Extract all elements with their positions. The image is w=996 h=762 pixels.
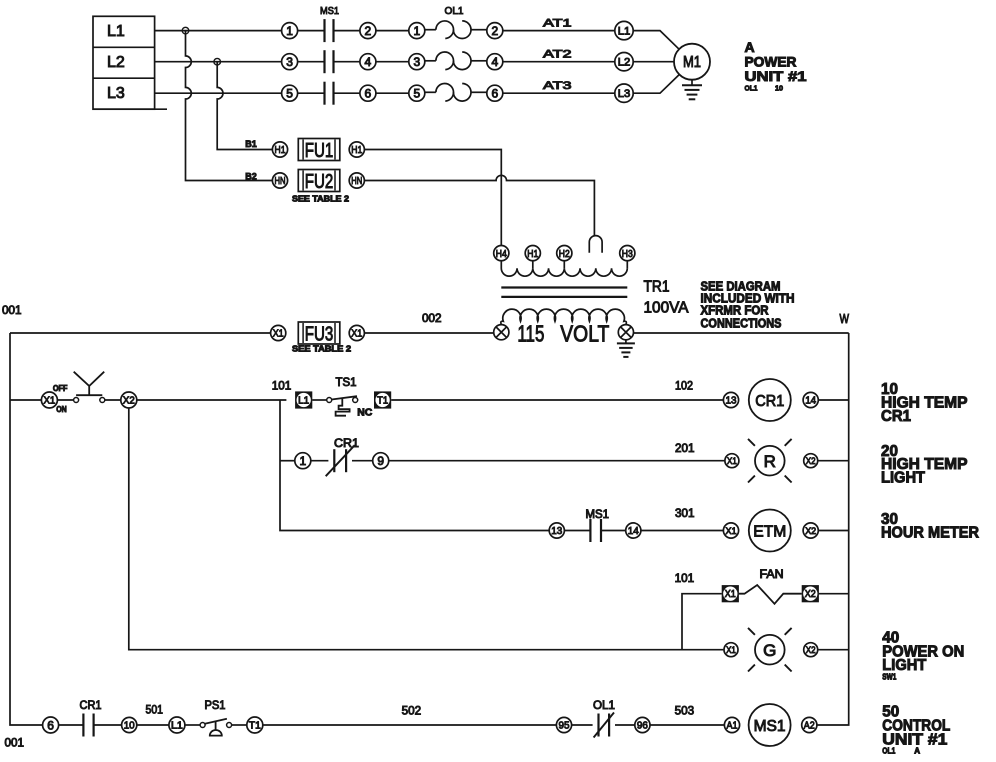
panel terminal X1 selector — [41, 392, 57, 408]
svg-text:6: 6 — [491, 86, 498, 100]
svg-text:X1: X1 — [351, 328, 362, 340]
svg-text:UNIT #1: UNIT #1 — [745, 68, 807, 84]
terminal HN left — [272, 173, 287, 188]
svg-text:FAN: FAN — [760, 569, 784, 581]
wire R lamp to rail — [818, 460, 849, 462]
pin 1 — [295, 453, 311, 469]
wire 001 to FU3 — [10, 332, 271, 334]
MS1 aux NO contact — [564, 519, 625, 542]
svg-text:H4: H4 — [496, 248, 507, 260]
svg-text:X1: X1 — [273, 328, 284, 340]
pin 9 — [373, 453, 389, 469]
label 20 HIGH TEMP LIGHT — [881, 443, 968, 487]
wire 002 to transformer — [364, 332, 493, 334]
svg-text:X2: X2 — [805, 526, 816, 537]
wire T1 to CR1 coil — [391, 399, 723, 401]
svg-text:1: 1 — [413, 24, 420, 38]
svg-text:B1: B1 — [245, 139, 257, 150]
svg-text:HN: HN — [351, 175, 362, 187]
svg-text:MS1: MS1 — [320, 5, 339, 17]
svg-text:TR1: TR1 — [644, 279, 670, 296]
wire CR1 to rail — [818, 399, 848, 401]
svg-text:G: G — [763, 641, 776, 660]
label 30 HOUR METER — [881, 511, 979, 541]
svg-text:3: 3 — [413, 55, 420, 69]
transformer core — [501, 288, 627, 297]
svg-text:VOLT: VOLT — [560, 321, 609, 347]
svg-text:FU2: FU2 — [305, 170, 334, 193]
wire ETM to rail — [818, 530, 848, 532]
wire 301 to ETM — [641, 530, 724, 532]
svg-text:LIGHT: LIGHT — [881, 470, 925, 487]
OL1 heater element 3-4 — [409, 52, 503, 70]
svg-text:L1: L1 — [107, 23, 125, 40]
svg-text:CONNECTIONS: CONNECTIONS — [701, 316, 782, 330]
wire L2 to motor — [633, 61, 674, 63]
svg-text:T1: T1 — [249, 721, 261, 732]
MS1 contact 3-4 — [282, 50, 376, 73]
svg-text:ETM: ETM — [753, 523, 786, 540]
svg-text:T1: T1 — [377, 396, 388, 407]
terminal X2 of R lamp — [804, 454, 818, 468]
fan motor element — [739, 585, 802, 604]
svg-text:L3: L3 — [107, 85, 125, 102]
svg-text:X2: X2 — [805, 589, 816, 600]
wire G lamp to rail — [818, 649, 849, 651]
svg-text:M1: M1 — [683, 54, 701, 71]
svg-text:101: 101 — [675, 573, 695, 585]
wire FU1 to transformer H4 — [364, 150, 501, 246]
svg-text:4: 4 — [365, 55, 372, 69]
secondary ground — [617, 340, 635, 357]
svg-text:L2: L2 — [618, 57, 631, 69]
svg-text:503: 503 — [675, 705, 695, 717]
svg-text:CR1: CR1 — [334, 438, 359, 450]
relay coil CR1 — [749, 379, 791, 421]
wire 201 to R lamp — [389, 460, 725, 462]
svg-text:5: 5 — [413, 86, 420, 100]
svg-text:1: 1 — [299, 454, 306, 468]
svg-text:X1: X1 — [725, 589, 736, 600]
label 50 CONTROL UNIT #1 — [882, 703, 950, 755]
svg-text:95: 95 — [559, 720, 570, 732]
svg-text:OL1: OL1 — [882, 746, 895, 755]
terminal block T1 — [374, 391, 391, 408]
svg-text:6: 6 — [47, 718, 54, 732]
wire 2 to OL1 — [376, 30, 409, 32]
terminal H1 right — [349, 142, 364, 157]
svg-text:X1: X1 — [726, 645, 736, 656]
motor ground — [682, 80, 702, 100]
svg-text:A1: A1 — [727, 720, 738, 732]
wire L1 to MS1 contact — [155, 30, 282, 32]
svg-text:X1: X1 — [44, 396, 56, 407]
CR1 NO contact — [59, 714, 122, 737]
pin A2 — [802, 717, 817, 732]
transformer primary winding — [501, 261, 627, 276]
svg-text:A: A — [914, 746, 920, 755]
svg-text:201: 201 — [675, 443, 695, 455]
svg-text:NC: NC — [357, 406, 372, 418]
terminal X1 of G lamp — [724, 643, 738, 657]
svg-text:3: 3 — [286, 55, 293, 69]
svg-text:MS1: MS1 — [754, 718, 786, 735]
svg-text:001: 001 — [5, 738, 25, 750]
fuse FU3 — [298, 322, 340, 345]
pin 6 — [43, 717, 59, 733]
terminal block X2 of fan — [802, 585, 819, 602]
svg-text:2: 2 — [491, 24, 498, 38]
secondary terminal X right — [618, 325, 633, 340]
svg-text:1: 1 — [286, 24, 293, 38]
svg-text:502: 502 — [402, 705, 422, 717]
svg-text:OL1: OL1 — [593, 700, 615, 712]
pressure switch PS1 — [185, 719, 247, 736]
svg-text:6: 6 — [365, 86, 372, 100]
pin 13 of CR1 — [723, 392, 738, 407]
pilot light R — [748, 439, 792, 483]
wire 6 to OL1 — [376, 92, 409, 94]
svg-text:FU1: FU1 — [305, 139, 334, 162]
fan branch dropper — [682, 594, 722, 650]
svg-text:X2: X2 — [806, 645, 816, 656]
svg-text:MS1: MS1 — [586, 509, 610, 521]
wire L3 to motor — [633, 75, 679, 94]
svg-text:X1: X1 — [726, 526, 737, 537]
terminal X1 of R lamp — [725, 454, 739, 468]
motor terminal L1 — [615, 21, 633, 39]
label 115 VOLT — [517, 321, 609, 347]
wire from L1 junction down to B2 row — [186, 31, 273, 181]
left rail — [10, 333, 43, 725]
svg-text:9: 9 — [377, 454, 384, 468]
svg-text:H1: H1 — [527, 248, 538, 260]
pin 13 of MS1 aux — [549, 523, 564, 538]
fuse FU1 — [298, 139, 340, 162]
wire L2 to MS1 contact — [155, 61, 282, 63]
wire X2 down to power-on rung — [129, 408, 724, 650]
svg-text:FU3: FU3 — [305, 322, 334, 345]
svg-text:HN: HN — [275, 175, 286, 187]
terminal H1 left — [272, 142, 287, 157]
svg-text:2: 2 — [365, 24, 372, 38]
starter coil MS1 — [749, 704, 791, 746]
wire from L2 junction down to B1 row — [217, 62, 272, 150]
pin 14 of CR1 — [803, 392, 818, 407]
svg-text:OL1: OL1 — [745, 84, 758, 93]
svg-text:X2: X2 — [806, 456, 816, 467]
wire rail to selector X1 — [10, 399, 41, 401]
svg-text:LIGHT: LIGHT — [882, 657, 926, 674]
svg-text:5: 5 — [286, 86, 293, 100]
svg-text:14: 14 — [805, 395, 816, 407]
svg-text:13: 13 — [726, 395, 737, 407]
svg-text:H2: H2 — [559, 248, 570, 260]
tap prong into primary — [589, 236, 602, 253]
svg-text:14: 14 — [628, 525, 639, 537]
wire 4 to OL1 — [376, 61, 409, 63]
terminal block X1 of fan — [722, 585, 739, 602]
svg-text:H3: H3 — [622, 248, 633, 260]
fuse FU2 — [298, 170, 340, 193]
wire secondary to right rail W — [634, 332, 849, 334]
svg-text:ON: ON — [56, 405, 67, 414]
OL1 heater element 1-2 — [409, 21, 503, 39]
svg-text:101: 101 — [272, 380, 292, 392]
wire fan to rail — [819, 593, 849, 595]
svg-text:10: 10 — [124, 720, 135, 732]
svg-text:L3: L3 — [618, 88, 631, 100]
panel terminal X2 selector — [121, 392, 137, 408]
motor terminal L2 — [615, 53, 633, 71]
3-phase source terminal box L1 L2 L3 — [93, 16, 167, 109]
svg-text:AT1: AT1 — [543, 17, 572, 29]
svg-text:R: R — [764, 452, 776, 471]
pin 14 of MS1 aux — [626, 523, 641, 538]
terminal block L1 — [295, 391, 312, 408]
note SEE DIAGRAM INCLUDED WITH XFRMR FOR CONNECTIONS — [701, 279, 795, 330]
wire 502 — [263, 724, 556, 726]
svg-text:4: 4 — [491, 55, 498, 69]
svg-text:PS1: PS1 — [205, 700, 226, 712]
dropper rung2 to rung3 and rung4 — [280, 400, 549, 531]
svg-text:L2: L2 — [107, 54, 125, 71]
terminal X1 left of FU3 — [271, 325, 286, 340]
svg-text:AT2: AT2 — [543, 48, 572, 60]
wire L1 to motor — [633, 31, 679, 50]
svg-text:HOUR METER: HOUR METER — [881, 524, 979, 541]
secondary terminal X left — [494, 325, 509, 340]
svg-text:CR1: CR1 — [80, 700, 102, 712]
wire FU2 to transformer tap (hops over FU1 drop) — [364, 175, 594, 236]
wire dropper to pin 1 — [280, 460, 295, 462]
motor M1 — [674, 44, 710, 80]
wire AT3 — [503, 80, 615, 93]
svg-text:AT3: AT3 — [543, 80, 572, 92]
terminal L1 bottom — [169, 717, 185, 733]
svg-text:X1: X1 — [727, 456, 737, 467]
pin 10 — [122, 717, 137, 732]
svg-text:W: W — [840, 312, 850, 326]
svg-text:102: 102 — [675, 380, 693, 392]
terminal X2 of G lamp — [804, 643, 818, 657]
MS1 contact 1-2 — [282, 19, 376, 42]
pilot light G — [748, 628, 792, 672]
wire 501 — [137, 724, 169, 726]
svg-text:501: 501 — [146, 705, 164, 717]
svg-text:L1: L1 — [618, 26, 631, 38]
svg-text:L1: L1 — [171, 721, 183, 732]
right rail — [817, 333, 849, 725]
wire L3 to MS1 contact — [155, 92, 282, 94]
svg-text:115: 115 — [517, 321, 544, 347]
svg-text:L1: L1 — [298, 396, 309, 407]
svg-text:B2: B2 — [245, 171, 256, 182]
svg-text:96: 96 — [637, 720, 648, 732]
svg-text:OL1: OL1 — [445, 5, 464, 17]
svg-text:002: 002 — [422, 313, 442, 325]
svg-text:X2: X2 — [123, 396, 135, 407]
terminal X1 right of FU3 — [349, 325, 364, 340]
svg-text:SW1: SW1 — [882, 673, 896, 682]
transformer TR1 primary pins H4 H1 H2 H3 — [494, 246, 635, 261]
svg-text:SEE TABLE 2: SEE TABLE 2 — [292, 343, 351, 353]
pin A1 — [724, 717, 739, 732]
svg-text:10: 10 — [775, 84, 783, 93]
pin 95 — [556, 717, 571, 732]
label 10 HIGH TEMP CR1 — [881, 381, 968, 425]
svg-text:H1: H1 — [275, 144, 286, 156]
OL1 NC contact — [572, 713, 635, 738]
wire 503 — [650, 724, 724, 726]
svg-text:100VA: 100VA — [644, 300, 689, 317]
hour meter ETM — [749, 510, 791, 552]
svg-text:H1: H1 — [351, 144, 362, 156]
wire AT2 — [503, 48, 615, 61]
CR1 NC contact — [311, 445, 373, 476]
svg-text:TS1: TS1 — [336, 377, 357, 389]
pin 96 — [635, 717, 650, 732]
MS1 contact 5-6 — [282, 82, 376, 105]
terminal X1 of ETM — [723, 523, 738, 538]
OL1 heater element 5-6 — [409, 84, 503, 102]
svg-text:301: 301 — [675, 508, 695, 520]
label 40 POWER ON LIGHT — [882, 630, 964, 682]
svg-text:13: 13 — [551, 525, 562, 537]
svg-text:SEE TABLE 2: SEE TABLE 2 — [292, 194, 349, 204]
junction node on L1 — [182, 27, 189, 34]
label A POWER UNIT #1 — [745, 39, 807, 92]
terminal T1 bottom — [247, 717, 263, 733]
wire X2 to terminal L1 — [137, 399, 287, 401]
svg-text:001: 001 — [2, 305, 22, 317]
terminal HN right — [349, 173, 364, 188]
motor terminal L3 — [615, 84, 633, 102]
svg-text:CR1: CR1 — [881, 408, 911, 425]
svg-text:A2: A2 — [804, 720, 815, 732]
thermal switch TS1 NC — [312, 396, 357, 416]
junction node on L2 — [214, 58, 221, 65]
terminal X2 of ETM — [803, 523, 818, 538]
svg-text:CR1: CR1 — [755, 393, 784, 410]
wire AT1 — [503, 17, 615, 30]
svg-text:OFF: OFF — [53, 384, 68, 393]
transformer secondary winding — [501, 309, 627, 324]
selector switch SS1 — [57, 372, 120, 403]
